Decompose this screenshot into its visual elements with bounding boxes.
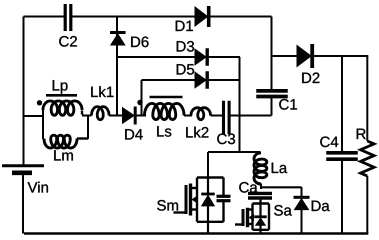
wire — [81, 111, 83, 115]
wire — [222, 200, 224, 222]
label D3 — [177, 41, 194, 52]
wire — [239, 57, 241, 152]
diode D5 — [195, 72, 206, 88]
label D4 — [125, 129, 143, 139]
phase dot Lp — [37, 100, 42, 105]
label Lp — [53, 80, 68, 93]
label D1 — [176, 21, 193, 31]
wire — [117, 56, 196, 58]
diode D1 — [195, 7, 208, 26]
label Vin — [28, 182, 48, 193]
label C1 — [279, 99, 297, 110]
wire — [24, 232, 368, 235]
wire — [109, 115, 123, 117]
wire — [239, 116, 241, 153]
label Lk1 — [91, 86, 113, 97]
wire — [259, 204, 261, 217]
wire — [222, 178, 224, 196]
diode D4 — [123, 108, 135, 124]
mosfet Sm — [174, 211, 187, 213]
wire — [268, 204, 270, 230]
wire — [209, 79, 241, 81]
label Lk2 — [186, 127, 208, 138]
capacitor C4 — [326, 151, 358, 155]
diode Da — [294, 196, 310, 199]
wire — [272, 55, 299, 57]
diode Sm body — [201, 193, 215, 196]
label D2 — [302, 73, 319, 83]
wire — [253, 229, 270, 231]
label C3 — [217, 134, 235, 145]
inductor Ls — [145, 103, 185, 119]
wire — [301, 209, 303, 234]
wire — [42, 110, 44, 139]
capacitor Ca — [248, 192, 272, 195]
inductor La — [254, 153, 267, 184]
wire — [23, 17, 25, 165]
wire — [260, 186, 302, 188]
label Lm — [54, 150, 73, 160]
label R — [357, 129, 366, 139]
wire — [137, 115, 147, 117]
wire — [207, 178, 209, 194]
wire — [87, 116, 89, 140]
wire — [141, 80, 143, 116]
label D6 — [131, 37, 148, 48]
wire — [24, 115, 44, 117]
wire — [259, 225, 261, 234]
capacitor Sm snubber — [217, 195, 231, 198]
capacitor C3 — [222, 101, 225, 135]
label Da — [312, 201, 330, 211]
wire — [207, 205, 209, 222]
label Ca — [239, 182, 257, 193]
wire — [366, 176, 368, 234]
diode D2 — [297, 46, 311, 67]
wire D6 vertical — [116, 17, 118, 116]
wire — [77, 137, 88, 139]
inductor Lk1 — [91, 107, 109, 120]
wire — [231, 115, 272, 117]
label C2 — [59, 36, 77, 47]
wire — [271, 17, 273, 91]
label C4 — [320, 137, 338, 148]
wire — [210, 16, 272, 18]
label Ls — [157, 126, 171, 136]
wire — [208, 151, 260, 153]
battery Vin — [2, 164, 44, 167]
wire — [341, 160, 343, 234]
diode D6 — [110, 31, 126, 34]
label D5 — [177, 64, 194, 74]
wire — [271, 97, 273, 116]
capacitor C1 — [256, 89, 288, 93]
wire — [341, 56, 343, 152]
wire — [196, 178, 198, 222]
wire — [72, 16, 196, 18]
wire — [184, 115, 192, 117]
wire — [207, 222, 209, 234]
resistor R — [361, 141, 375, 176]
diode D3 — [195, 49, 206, 65]
phase dot Ls — [137, 100, 142, 105]
wire — [251, 204, 253, 230]
wire — [301, 187, 303, 197]
wire — [260, 184, 262, 190]
wire — [313, 55, 368, 57]
wire — [197, 221, 224, 223]
wire — [22, 175, 24, 234]
wire — [211, 115, 224, 117]
core bar Lp — [46, 94, 77, 97]
inductor Lm — [44, 135, 77, 148]
label La — [272, 163, 287, 173]
capacitor C2 — [64, 4, 67, 31]
wire — [209, 56, 241, 58]
diode Sa body — [254, 215, 267, 218]
label Sm — [157, 200, 178, 211]
label Sa — [274, 205, 292, 216]
wire — [24, 16, 65, 18]
inductor Lk2 — [191, 108, 211, 120]
wire — [197, 176, 224, 178]
wire — [259, 198, 261, 205]
mosfet Sa — [235, 223, 243, 225]
wire — [142, 79, 197, 81]
wire — [366, 56, 368, 141]
core bar Ls — [150, 96, 183, 99]
wire — [82, 115, 92, 117]
inductor Lp — [43, 101, 82, 115]
wire — [253, 202, 270, 204]
wire Sm drop — [207, 152, 209, 178]
